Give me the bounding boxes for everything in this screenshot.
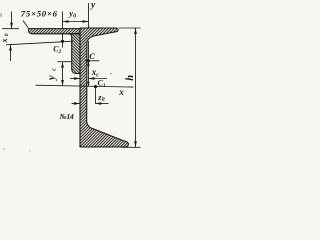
svg-text:C: C	[89, 51, 95, 61]
svg-text:75×50×6: 75×50×6	[21, 8, 58, 18]
svg-text:0: 0	[4, 33, 10, 36]
svg-text:h: h	[125, 75, 136, 81]
svg-text:x: x	[0, 39, 9, 44]
svg-text:x: x	[118, 87, 124, 97]
svg-text:№14: №14	[60, 112, 74, 121]
svg-text:y: y	[47, 75, 58, 81]
svg-text:y: y	[90, 1, 96, 11]
svg-text:c: c	[50, 68, 57, 71]
